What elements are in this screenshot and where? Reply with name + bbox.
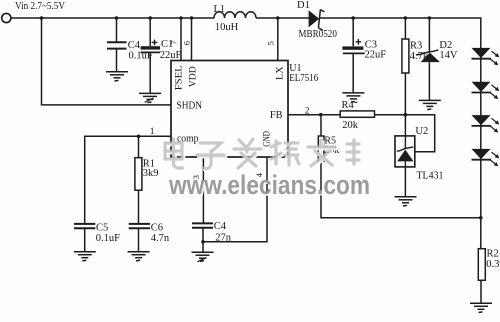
node C4b junction: [201, 240, 205, 244]
resistor R3: [402, 39, 409, 73]
resistor R1: [135, 158, 142, 191]
wire SHDN from input junction: [42, 18, 172, 105]
wire D2 branch: [428, 18, 430, 100]
LED D4: [472, 82, 499, 99]
node D2: [428, 16, 432, 20]
wire R2 to ground: [480, 280, 482, 303]
svg-text:LX: LX: [276, 66, 286, 80]
node C4: [115, 16, 119, 20]
svg-text:C4: C4: [214, 221, 227, 232]
node comp R1: [137, 135, 141, 139]
svg-text:D1: D1: [297, 0, 310, 11]
LED D5: [472, 115, 499, 132]
capacitor C4b 27n: [192, 223, 213, 227]
wire rail after L1 to D1: [256, 17, 310, 19]
svg-text:C6: C6: [151, 223, 163, 234]
svg-text:EL7516: EL7516: [289, 73, 318, 84]
svg-text:U2: U2: [415, 126, 428, 137]
input terminal: [2, 13, 11, 22]
node LED R2 junction: [479, 216, 483, 220]
inductor L1: [214, 12, 256, 18]
wire C4 stem: [116, 18, 118, 72]
svg-text:10uH: 10uH: [215, 22, 239, 33]
svg-text:L1: L1: [214, 4, 226, 15]
wire FB to R4 chain: [288, 115, 435, 152]
svg-text:0.1uF: 0.1uF: [96, 233, 120, 244]
svg-text:27n: 27n: [215, 232, 232, 243]
svg-text:22uF: 22uF: [365, 50, 387, 61]
ground R2: [470, 303, 492, 312]
ground C3: [342, 93, 364, 102]
resistor R5: [318, 136, 324, 161]
wire pin 3 to C4b: [202, 157, 204, 223]
capacitor C6 4.7n: [129, 224, 150, 228]
capacitor C3 22uF electrolytic: [342, 39, 364, 53]
svg-text:FB: FB: [270, 110, 283, 121]
svg-text:5: 5: [265, 41, 275, 45]
capacitor C1 22uF electrolytic: [141, 40, 161, 53]
svg-text:FSEL: FSEL: [174, 65, 184, 90]
node C1: [148, 16, 152, 20]
wire pin 6: [191, 18, 193, 61]
resistor R4: [340, 111, 374, 117]
wire pin 7: [180, 18, 182, 61]
resistor R2: [478, 249, 485, 281]
ground D2: [419, 100, 441, 109]
svg-text:C4: C4: [128, 40, 141, 51]
wire R1 branch comp node to C6: [138, 136, 140, 223]
svg-text:22uF: 22uF: [160, 50, 182, 61]
ground U2: [395, 197, 417, 206]
node C3: [351, 16, 355, 20]
wire pin 5 LX: [277, 18, 279, 61]
node pin7: [179, 16, 182, 19]
svg-text:VDD: VDD: [188, 66, 198, 87]
svg-text:0.39: 0.39: [486, 259, 500, 270]
node pin6: [190, 16, 193, 19]
wire R5 branch from FB node down then right to LED/R2 node: [321, 115, 481, 218]
svg-text:SHDN: SHDN: [177, 100, 203, 111]
ground C6: [128, 252, 150, 261]
diode D1: [309, 10, 325, 31]
zener diode D2: [416, 50, 440, 62]
wire pin 4 GND down and left to C4b junction: [203, 157, 267, 242]
LED D6: [472, 149, 499, 166]
LED D3: [472, 48, 499, 65]
svg-text:2: 2: [305, 107, 310, 117]
ground C4: [106, 72, 128, 81]
svg-text:R2: R2: [487, 249, 499, 260]
svg-text:R3: R3: [410, 40, 422, 51]
wire C4b below to ground: [202, 228, 204, 253]
node FB R5: [319, 113, 323, 117]
svg-text:Vin 2.7~5.5V: Vin 2.7~5.5V: [15, 1, 65, 12]
op-amp U1 EL7516 box: [171, 61, 288, 158]
wire U2 anode to ground: [404, 167, 406, 197]
svg-text:TL431: TL431: [417, 171, 444, 182]
svg-text:C5: C5: [96, 223, 108, 234]
svg-text:1: 1: [150, 127, 155, 137]
node R3 FB: [404, 113, 408, 117]
node R3: [404, 16, 408, 20]
svg-text:4.7k: 4.7k: [410, 51, 429, 62]
svg-text:14V: 14V: [439, 50, 458, 61]
wire C3 stem: [352, 18, 354, 93]
node LX: [276, 16, 280, 20]
node input branch: [40, 16, 44, 20]
wire rail after D1 to right corner and down LED chain: [320, 18, 481, 249]
wire top rail left: [11, 17, 214, 19]
svg-text:www.elecians.com: www.elecians.com: [168, 170, 370, 200]
watermark: [165, 139, 372, 202]
svg-text:7: 7: [168, 41, 178, 45]
capacitor C5 0.1uF: [74, 224, 95, 228]
wire comp pin to C5 corner: [85, 136, 171, 223]
svg-text:GND: GND: [262, 131, 272, 147]
svg-text:3k9: 3k9: [143, 168, 159, 179]
shunt regulator U2 TL431: [395, 136, 415, 167]
ground C4b: [192, 252, 214, 262]
svg-text:4.7n: 4.7n: [151, 233, 170, 244]
wire C5 to ground: [84, 228, 86, 251]
svg-text:6: 6: [181, 41, 191, 45]
ground C5: [74, 252, 96, 261]
wire C1 stem: [149, 18, 151, 93]
svg-text:MBR0520: MBR0520: [298, 29, 337, 40]
capacitor C4 0.1uF: [107, 42, 127, 48]
wire R3 branch rail to FB node and U2 cathode: [404, 18, 406, 136]
wire C6 to ground: [138, 228, 140, 251]
svg-text:20k: 20k: [342, 120, 359, 131]
ground C1: [139, 93, 161, 102]
